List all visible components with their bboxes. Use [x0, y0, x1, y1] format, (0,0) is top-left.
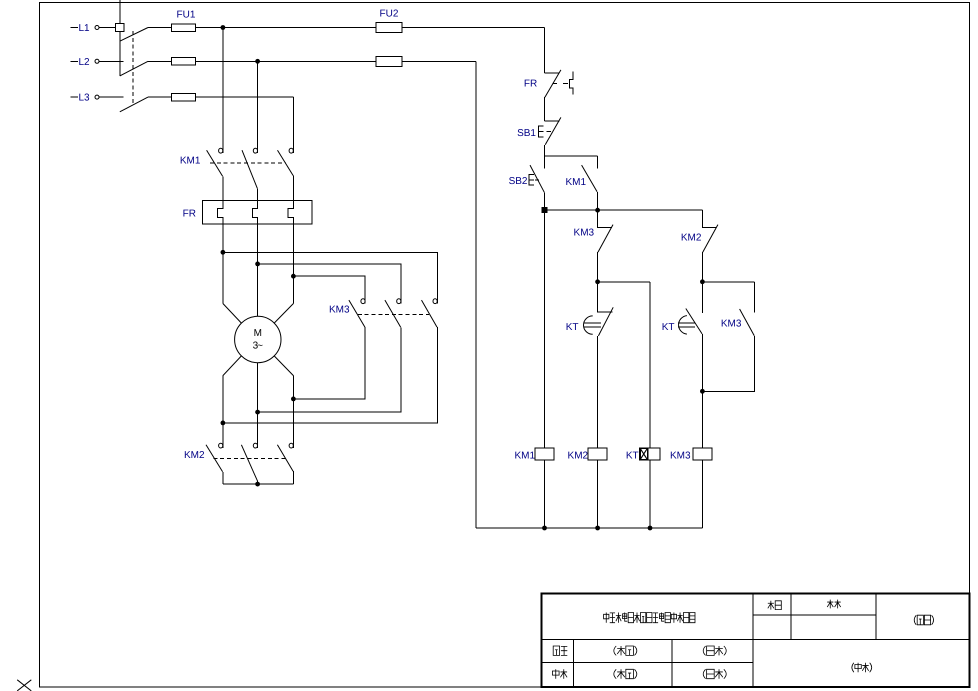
- terminal L1: [95, 26, 99, 30]
- pushbutton SB1 cap: [539, 126, 551, 137]
- contactor KM1 main contact pole 2: [242, 148, 258, 188]
- contact KM3 aux NO: [740, 282, 755, 336]
- wire tap1 to KM3 pole3: [223, 252, 437, 303]
- node KM3 pole3 return junction: [221, 421, 226, 426]
- wire KM2 pole3 to star bar: [292, 471, 294, 484]
- contact FR NC thermal symbol: [570, 72, 574, 95]
- wire phase2 drop to KM1: [257, 61, 259, 153]
- wire L2 control bus drop: [475, 61, 477, 528]
- switch QS pole 3: [120, 97, 148, 112]
- wire KT coil drop: [649, 282, 651, 448]
- svg-text:SB2: SB2: [509, 176, 528, 187]
- contactor KM3 main contact pole 1: [349, 299, 365, 327]
- label review 审核: [552, 669, 567, 678]
- node L1 junction: [221, 25, 226, 30]
- wire KT NC to KM2 coil: [597, 336, 599, 448]
- wire phase3 drop to KM1: [292, 97, 294, 153]
- contactor KM3 linkage: [358, 314, 429, 316]
- contact KM2 aux NC: [702, 210, 718, 252]
- motor lead top-left: [223, 304, 241, 324]
- wire control bus L1 drop: [544, 28, 546, 74]
- thermal overload FR heater pole 2: [252, 200, 257, 224]
- contactor KM1 linkage: [210, 162, 286, 164]
- thermal overload FR box: [202, 200, 312, 224]
- wire pole2 FR to motor: [257, 224, 259, 316]
- label material 材料: [827, 600, 841, 609]
- corner X mark: [17, 680, 31, 691]
- node KM3 coil branch split: [700, 279, 705, 284]
- wire pole3 FR to motor: [292, 224, 294, 303]
- title block divider design/name: [573, 640, 575, 687]
- contactor KM2 linkage: [213, 457, 285, 459]
- motor lead top-right: [274, 304, 293, 324]
- coil KM2: [588, 448, 607, 460]
- wire L3 switch to FU1: [148, 96, 172, 98]
- thermal overload FR heater pole 3: [288, 200, 293, 224]
- wire pole1 KM1 to FR: [222, 176, 224, 200]
- svg-text:SB1: SB1: [517, 128, 536, 139]
- svg-text:FR: FR: [183, 209, 196, 220]
- contact KT delay symbol: [584, 316, 601, 334]
- wire L1 switch to FU1: [148, 27, 172, 29]
- wire pole3 KM1 to FR: [292, 176, 294, 201]
- svg-text:KT: KT: [566, 322, 579, 333]
- wire FR to SB1: [544, 97, 546, 121]
- node L1 label: [70, 23, 90, 34]
- node star point: [255, 482, 260, 487]
- wire motor U2 drop: [222, 376, 224, 448]
- coil KM1: [535, 448, 554, 460]
- title block divider vertical main: [752, 594, 754, 687]
- motor lead bottom-right: [274, 356, 293, 376]
- wire pole2 KM1 to FR: [257, 188, 259, 200]
- wire KM2 aux to node: [701, 252, 703, 282]
- fuse FU1 pole 2: [172, 58, 196, 66]
- wire KM2 pole2 to star bar: [257, 481, 259, 485]
- contact FR NC linkage dashes: [553, 83, 569, 85]
- svg-text:M: M: [254, 328, 262, 339]
- wire top vertical into QS: [119, 0, 121, 76]
- wire pole1 FR to motor: [222, 224, 224, 303]
- node SB2 bottom square: [542, 207, 548, 213]
- title block outer border: [542, 594, 970, 687]
- wire split rail: [545, 155, 598, 157]
- svg-text:FU2: FU2: [380, 8, 399, 19]
- wire tap2 to KM3 pole2: [258, 264, 401, 304]
- node bus KM2: [595, 526, 600, 531]
- wire KM3 aux NO branch bottom: [702, 336, 754, 392]
- wire KT coil to bus: [649, 460, 651, 528]
- pushbutton SB2 NO contact: [530, 156, 545, 192]
- svg-text:3~: 3~: [253, 341, 264, 352]
- thermal overload FR heater pole 1: [218, 200, 223, 224]
- wire L1 FU1 to FU2: [196, 27, 376, 29]
- title block divider title row bottom: [542, 639, 970, 641]
- fuse FU1 pole 1: [172, 24, 196, 32]
- svg-text:L2: L2: [79, 57, 91, 68]
- wire KM1 coil to bus: [544, 460, 546, 528]
- pushbutton SB2 cap: [529, 175, 539, 186]
- fuse FU2 pole 1: [376, 23, 402, 33]
- contactor KM2 main contact pole 3: [277, 443, 293, 471]
- title block divider scale/material: [790, 594, 792, 640]
- svg-text:FU1: FU1: [177, 9, 196, 20]
- wire KM1 coil branch: [544, 213, 546, 448]
- wire KM3 aux NO branch top: [702, 281, 754, 283]
- contactor KM3 main contact pole 2: [385, 299, 401, 327]
- node L2 label: [70, 57, 90, 68]
- contactor KM2 main contact pole 2: [241, 443, 257, 480]
- svg-text:KM3: KM3: [670, 451, 691, 462]
- wire tap3 to KM3 pole1: [293, 276, 365, 303]
- node KM3 NO rejoin: [700, 389, 705, 394]
- svg-text:FR: FR: [524, 79, 537, 90]
- coil KT: [640, 448, 660, 460]
- contact KT NO delay symbol: [678, 316, 695, 335]
- svg-text:L1: L1: [79, 23, 91, 34]
- svg-text:KM1: KM1: [565, 177, 586, 188]
- wire L1 to switch: [99, 27, 116, 29]
- coil KM3: [693, 448, 712, 460]
- label design 设计: [553, 646, 567, 655]
- wire phase1 drop to KM1: [222, 28, 224, 154]
- motor M1 circle: [235, 316, 281, 362]
- label date (日期) row1: [703, 646, 726, 655]
- node KM3 pole1 return junction: [291, 397, 296, 402]
- label date (日期) row2: [703, 669, 726, 678]
- wire latch rail: [545, 209, 703, 211]
- wire KM3 pole1 return: [293, 327, 365, 399]
- title block divider scale row: [753, 614, 876, 616]
- svg-text:KM2: KM2: [184, 450, 205, 461]
- terminal L2: [95, 59, 99, 63]
- svg-text:KM2: KM2: [681, 232, 702, 243]
- node bus KM1: [542, 526, 547, 531]
- label name (姓名) row1: [614, 646, 637, 655]
- wire KM1 aux to rail: [597, 192, 599, 210]
- wire KM2 coil to bus: [597, 460, 599, 528]
- node L3 label: [70, 93, 90, 104]
- node bus KT: [648, 526, 653, 531]
- pushbutton SB1 NC contact: [545, 117, 561, 144]
- wire KM2 pole1 to star bar: [222, 472, 224, 484]
- node KM3 pole2 return junction: [255, 410, 260, 415]
- motor lead bottom-left: [223, 356, 241, 376]
- title block divider material/figure: [875, 594, 877, 640]
- node rail KM1 branch: [595, 208, 600, 213]
- fuse FU1 pole 3: [172, 93, 196, 101]
- node pole2 tap: [255, 262, 260, 267]
- wire KM3 pole2 return: [258, 327, 401, 412]
- svg-text:KT: KT: [626, 451, 639, 462]
- contactor KM1 main contact pole 1: [207, 148, 223, 176]
- wire KT coil branch top: [598, 281, 650, 283]
- switch QS linkage: [132, 31, 134, 104]
- wire KT NO to node: [701, 334, 703, 391]
- coil KT delay box: [640, 448, 648, 460]
- contactor KM2 main contact pole 1: [206, 443, 223, 472]
- switch QS pole 1: [120, 28, 148, 42]
- terminal L3: [95, 95, 99, 99]
- node KT branch split: [595, 279, 600, 284]
- wire L1 FU2 to control bus: [402, 27, 545, 29]
- title block divider name/date: [671, 640, 673, 687]
- wire star point bar: [223, 483, 294, 485]
- wire L3 to switch: [99, 96, 124, 98]
- svg-text:L3: L3: [79, 93, 91, 104]
- wire motor V2 drop: [257, 363, 259, 448]
- label scale 比例: [768, 601, 782, 610]
- svg-text:KM3: KM3: [721, 319, 742, 330]
- wire node to KM3 coil: [701, 391, 703, 448]
- wire SB2 to node: [544, 192, 546, 210]
- wire L3 FU1 to pole3 drop: [196, 96, 294, 98]
- wire SB1 to split: [544, 145, 546, 156]
- wire motor W2 drop: [292, 376, 294, 448]
- svg-text:KM3: KM3: [329, 305, 350, 316]
- svg-text:KM2: KM2: [568, 451, 589, 462]
- wire L2 switch to FU1: [148, 60, 172, 62]
- svg-text:KM1: KM1: [514, 451, 535, 462]
- label unit (单位): [852, 663, 872, 672]
- wire control bottom bus: [476, 527, 702, 529]
- contact FR NC: [545, 70, 561, 97]
- svg-text:KM3: KM3: [574, 228, 595, 239]
- contact KT delayed NC: [598, 282, 614, 336]
- label name (姓名) row2: [614, 669, 637, 678]
- label figure number (图号): [914, 615, 933, 625]
- wire L2 FU1 to FU2: [196, 60, 376, 62]
- contactor KM1 main contact pole 3: [278, 148, 294, 175]
- contact KM3 aux NC: [598, 210, 613, 252]
- contact KT delayed NO: [686, 282, 703, 334]
- switch QS pole 2: [120, 61, 148, 76]
- wire KM3 coil to bus: [701, 460, 703, 528]
- svg-text:KM1: KM1: [180, 156, 201, 167]
- node L2 junction: [255, 59, 260, 64]
- wire L2 FU2 to control bus: [402, 60, 476, 62]
- wire L2 to switch: [99, 60, 124, 62]
- node pole3 tap: [291, 274, 296, 279]
- title text 三相异步电动机星角启动控制电路: [604, 613, 695, 623]
- contact KM1 aux NO: [582, 156, 598, 192]
- title block divider design/review rows: [542, 661, 754, 663]
- wire KM3 aux to node: [597, 252, 599, 282]
- wire KM3 pole3 return: [223, 327, 437, 423]
- fuse FU2 pole 2: [376, 56, 402, 66]
- node pole1 tap: [221, 250, 226, 255]
- svg-text:KT: KT: [662, 322, 675, 333]
- contactor KM3 main contact pole 3: [422, 299, 438, 327]
